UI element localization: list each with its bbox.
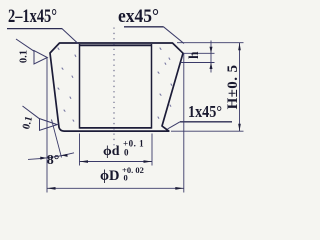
- label 2-1x45 deg: [7, 7, 62, 29]
- svg-text:1x45°: 1x45°: [188, 102, 222, 121]
- section speckles left wall: [58, 48, 76, 121]
- svg-text:2–1x45°: 2–1x45°: [8, 7, 57, 27]
- angle 8 deg arc: [28, 153, 74, 160]
- centerline: [113, 28, 115, 147]
- bore left edge: [79, 44, 81, 129]
- svg-text:ϕD: ϕD: [100, 168, 120, 184]
- svg-text:0: 0: [124, 147, 129, 157]
- angle arrows: [40, 157, 46, 160]
- svg-text:H±0. 5: H±0. 5: [225, 65, 241, 110]
- svg-text:ϕd: ϕd: [103, 144, 120, 159]
- dimension H plus-minus 0.5: [171, 43, 244, 132]
- section speckles right wall: [158, 48, 172, 118]
- label ex45 deg: [118, 7, 184, 44]
- dimension phi-d: [80, 134, 153, 166]
- svg-text:0: 0: [124, 173, 128, 183]
- part outline (sectioned die body): [50, 43, 183, 131]
- svg-text:8°: 8°: [47, 153, 60, 168]
- bore top inner line: [80, 44, 153, 46]
- label 1x45 deg: [168, 102, 233, 129]
- lower wedge symbol 0.1: [21, 106, 57, 131]
- leader to upper wedge: [16, 39, 34, 51]
- bore bottom inner line: [80, 127, 152, 129]
- leader to bore top corner: [62, 28, 78, 43]
- svg-text:ex45°: ex45°: [118, 7, 159, 27]
- angle 8 deg: taper extension line: [52, 120, 62, 158]
- upper wedge symbol 0.1: [19, 50, 48, 64]
- bore right edge: [151, 44, 153, 129]
- svg-text:0.1: 0.1: [19, 50, 30, 63]
- dimension phi-D: [47, 53, 184, 192]
- svg-text:h: h: [186, 51, 201, 59]
- dimension h: [181, 41, 215, 73]
